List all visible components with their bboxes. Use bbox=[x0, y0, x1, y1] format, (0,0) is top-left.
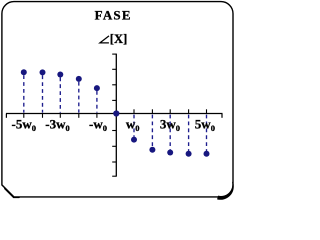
x axis tick w0 bbox=[133, 109, 135, 113]
x axis ticks above (positive side) bbox=[134, 109, 207, 113]
y axis tick -3 bbox=[112, 161, 116, 163]
dot at 2w0 bbox=[149, 147, 155, 153]
dot at -3w0 bbox=[57, 72, 63, 78]
y axis tick +2 bbox=[112, 84, 116, 86]
stem at 4w0 bbox=[188, 115, 190, 151]
x axis tick 3w0 bbox=[169, 109, 171, 113]
y axis bbox=[115, 54, 117, 177]
svg-text:FASE: FASE bbox=[95, 8, 132, 23]
frame shadow bottom-left corner bbox=[5, 189, 19, 198]
x axis bbox=[6, 113, 223, 115]
dot at -2w0 bbox=[76, 76, 82, 82]
x axis tick 2w0 bbox=[151, 109, 153, 113]
frame rounded border bbox=[2, 2, 233, 197]
stem at -3w0 bbox=[59, 77, 61, 112]
stem at -4w0 bbox=[42, 75, 44, 112]
stems left (dashed) bbox=[24, 75, 97, 112]
dot at -5w0 bbox=[21, 69, 27, 75]
y axis tick +4 bbox=[112, 53, 116, 55]
stem at w0 bbox=[133, 115, 135, 137]
y axis tick +1 bbox=[112, 99, 116, 101]
dot at 5w0 bbox=[204, 151, 210, 157]
stem at 2w0 bbox=[151, 115, 153, 147]
stems right (dashed) bbox=[134, 115, 207, 151]
x axis end tick right bbox=[221, 114, 223, 118]
x axis tick -w0 bbox=[96, 114, 98, 118]
angle symbol bbox=[100, 36, 109, 43]
x axis tick -2w0 bbox=[78, 114, 80, 118]
x axis tick 4w0 bbox=[188, 109, 190, 113]
y axis tick -4 bbox=[112, 175, 116, 177]
stem at -w0 bbox=[96, 91, 98, 113]
dots left bbox=[21, 69, 100, 91]
dot at -w0 bbox=[94, 85, 100, 91]
stem at 5w0 bbox=[206, 115, 208, 151]
y axis tick -2 bbox=[112, 145, 116, 147]
dot at 3w0 bbox=[167, 150, 173, 156]
x axis tick -3w0 bbox=[59, 114, 61, 118]
dot at -4w0 bbox=[40, 69, 46, 75]
x axis ticks below (negative side) bbox=[24, 114, 97, 118]
svg-text:[X]: [X] bbox=[110, 32, 127, 46]
origin dot bbox=[113, 110, 119, 116]
x axis end tick left bbox=[5, 114, 7, 118]
y axis tick -1 bbox=[112, 130, 116, 132]
frame shadow bottom-right corner bbox=[217, 182, 234, 200]
dots right bbox=[131, 137, 210, 157]
stem at -2w0 bbox=[78, 82, 80, 113]
y axis tick +3 bbox=[112, 68, 116, 70]
dot at 4w0 bbox=[186, 151, 192, 157]
x axis tick -4w0 bbox=[42, 114, 44, 118]
x axis tick 5w0 bbox=[206, 109, 208, 113]
x axis tick -5w0 bbox=[23, 114, 25, 118]
stem at -5w0 bbox=[23, 75, 25, 112]
stem at 3w0 bbox=[169, 115, 171, 150]
y axis ticks bbox=[112, 54, 116, 176]
dot at w0 bbox=[131, 137, 137, 143]
